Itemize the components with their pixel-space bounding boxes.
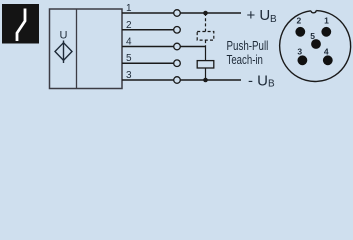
svg-text:3: 3 [126,70,132,81]
svg-text:1: 1 [126,3,132,14]
svg-text:1: 1 [324,16,329,26]
svg-text:Teach-in: Teach-in [227,53,263,67]
svg-text:U: U [60,30,68,42]
svg-text:3: 3 [297,46,302,56]
svg-text:5: 5 [310,31,315,41]
svg-text:2: 2 [297,16,302,26]
svg-text:2: 2 [126,20,132,31]
svg-text:B: B [270,14,277,25]
svg-text:Push-Pull: Push-Pull [227,39,269,53]
svg-text:5: 5 [126,53,132,64]
svg-text:4: 4 [324,46,329,56]
svg-text:B: B [268,78,275,89]
svg-text:- U: - U [248,73,268,90]
svg-text:4: 4 [126,37,132,48]
svg-text:+ U: + U [247,7,271,24]
